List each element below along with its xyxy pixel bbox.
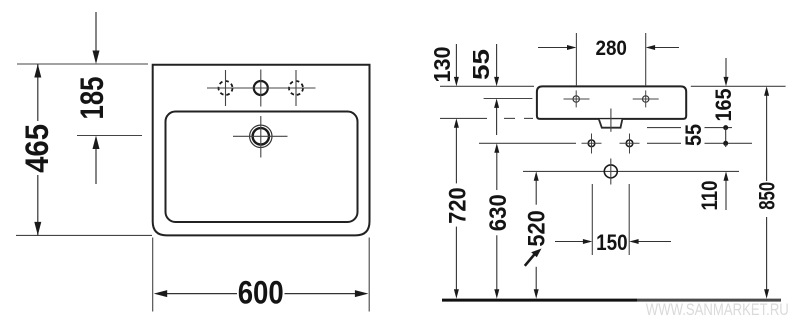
- dim 55 right connector line between dots: [725, 128, 727, 144]
- drain outlet circle (front view): [604, 165, 617, 178]
- extension line, rim top level (right of body): [691, 85, 786, 87]
- drain level horizontal line: [523, 170, 739, 172]
- extension line, top edge level: [17, 63, 148, 65]
- slope indicator arrow (diagonal, points up-right): [525, 249, 542, 266]
- faucet mark right: cross: [633, 98, 659, 100]
- dim 465 line with arrows: [34, 64, 41, 235]
- svg-text:130: 130: [429, 47, 455, 83]
- dim 55 right lower terminator dot: [723, 141, 728, 146]
- dim 110 lower arrow (points up at drain level): [724, 171, 729, 210]
- svg-text:720: 720: [444, 187, 471, 224]
- dim 150 right arrow (outside, points left): [629, 239, 671, 244]
- drain spout trapezoid: [599, 119, 622, 127]
- dim 150 right extension line: [628, 184, 630, 255]
- svg-text:185: 185: [74, 77, 110, 120]
- drain vertical centerline: [260, 116, 262, 158]
- dim 280 right extension line: [645, 33, 647, 86]
- svg-text:165: 165: [711, 89, 736, 122]
- extension line, rim top level (left of body): [440, 85, 534, 87]
- dim 55 left upper arrow (points down at rim top): [494, 44, 499, 86]
- dim 280 left extension line: [575, 33, 577, 86]
- faucet hole left (dashed circle): [219, 81, 233, 95]
- extension line, bottom edge level: [16, 234, 152, 236]
- floor line (gray part under watermark): [637, 299, 781, 302]
- dim 850 line with arrows (rim top to floor): [764, 86, 769, 298]
- dim 150 left arrow (outside, points right): [555, 239, 592, 244]
- extension line, underside level: [440, 117, 487, 119]
- faucet mark left: circle: [573, 96, 579, 102]
- dim 630 line with arrows (bolt level to floor): [494, 143, 499, 298]
- svg-text:520: 520: [523, 210, 550, 246]
- drain vertical centerline (through spout): [610, 109, 612, 132]
- faucet mark left: cross: [564, 98, 590, 100]
- dim 600 line with arrows: [154, 290, 369, 297]
- svg-text:110: 110: [697, 181, 722, 211]
- extension line, faucet level (left of body): [484, 98, 533, 100]
- spout bottom level line (right segment): [647, 127, 681, 129]
- faucet hole right vertical centerline: [295, 70, 297, 106]
- faucet hole center (solid circle): [254, 81, 268, 95]
- dim 150 left extension line: [591, 184, 593, 255]
- svg-text:280: 280: [595, 35, 627, 60]
- bolt hole left: cross: [582, 142, 602, 144]
- bolt hole level line (far right segment through dot): [705, 142, 753, 144]
- basin inner bowl: [166, 112, 358, 223]
- faucet hole right (dashed circle): [289, 81, 303, 95]
- dim 720 line with arrows (underside to floor): [454, 118, 459, 298]
- dim 165 upper arrow (points down at rim top): [724, 58, 729, 86]
- faucet holes horizontal centerline: [207, 87, 316, 89]
- svg-text:850: 850: [755, 182, 780, 210]
- extension line, drain level: [77, 135, 142, 137]
- svg-text:465: 465: [19, 124, 55, 173]
- svg-text:600: 600: [238, 274, 284, 310]
- bolt hole level line (right segment): [647, 142, 681, 144]
- drain outlet vertical centerline: [610, 159, 612, 185]
- washbasin body (front view): [537, 86, 686, 119]
- drain inner circle: [253, 128, 269, 144]
- dim 600 left extension line: [152, 238, 154, 312]
- drain outer circle: [250, 125, 272, 147]
- dim 280 left arrow (outside, points right): [538, 45, 576, 50]
- bolt hole right: circle: [626, 140, 633, 147]
- svg-text:150: 150: [596, 230, 628, 255]
- dim 280 right arrow (outside, points left): [646, 45, 679, 50]
- dim 600 right extension line: [368, 238, 370, 312]
- bolt hole level line (far left segment): [479, 142, 576, 144]
- drain horizontal centerline: [233, 135, 288, 137]
- sink outer rim (top view): [153, 65, 370, 236]
- dim 520 line with arrows (drain level to floor): [534, 171, 539, 298]
- svg-text:55: 55: [468, 49, 494, 80]
- svg-text:55: 55: [681, 124, 706, 146]
- faucet hole center vertical centerline: [260, 70, 262, 107]
- faucet hole left vertical centerline: [225, 70, 227, 106]
- dim 130 upper arrow (points down at rim top): [454, 44, 459, 86]
- dim 110 connector line: [725, 143, 727, 147]
- floor line (black part): [442, 299, 637, 302]
- dim 165 lower terminator dot: [723, 125, 728, 130]
- faucet mark right: circle: [643, 96, 649, 102]
- dim 55 left lower arrow (points up at faucet level): [494, 99, 499, 136]
- svg-text:WWW.SANMARKET.RU: WWW.SANMARKET.RU: [646, 301, 789, 319]
- svg-text:630: 630: [485, 194, 512, 231]
- bolt hole left: circle: [588, 140, 595, 147]
- dim 185 lower arrow (points up at drain level): [93, 136, 100, 185]
- bolt hole right: cross: [620, 142, 640, 144]
- dim 185 upper arrow (points down at top edge): [93, 12, 100, 64]
